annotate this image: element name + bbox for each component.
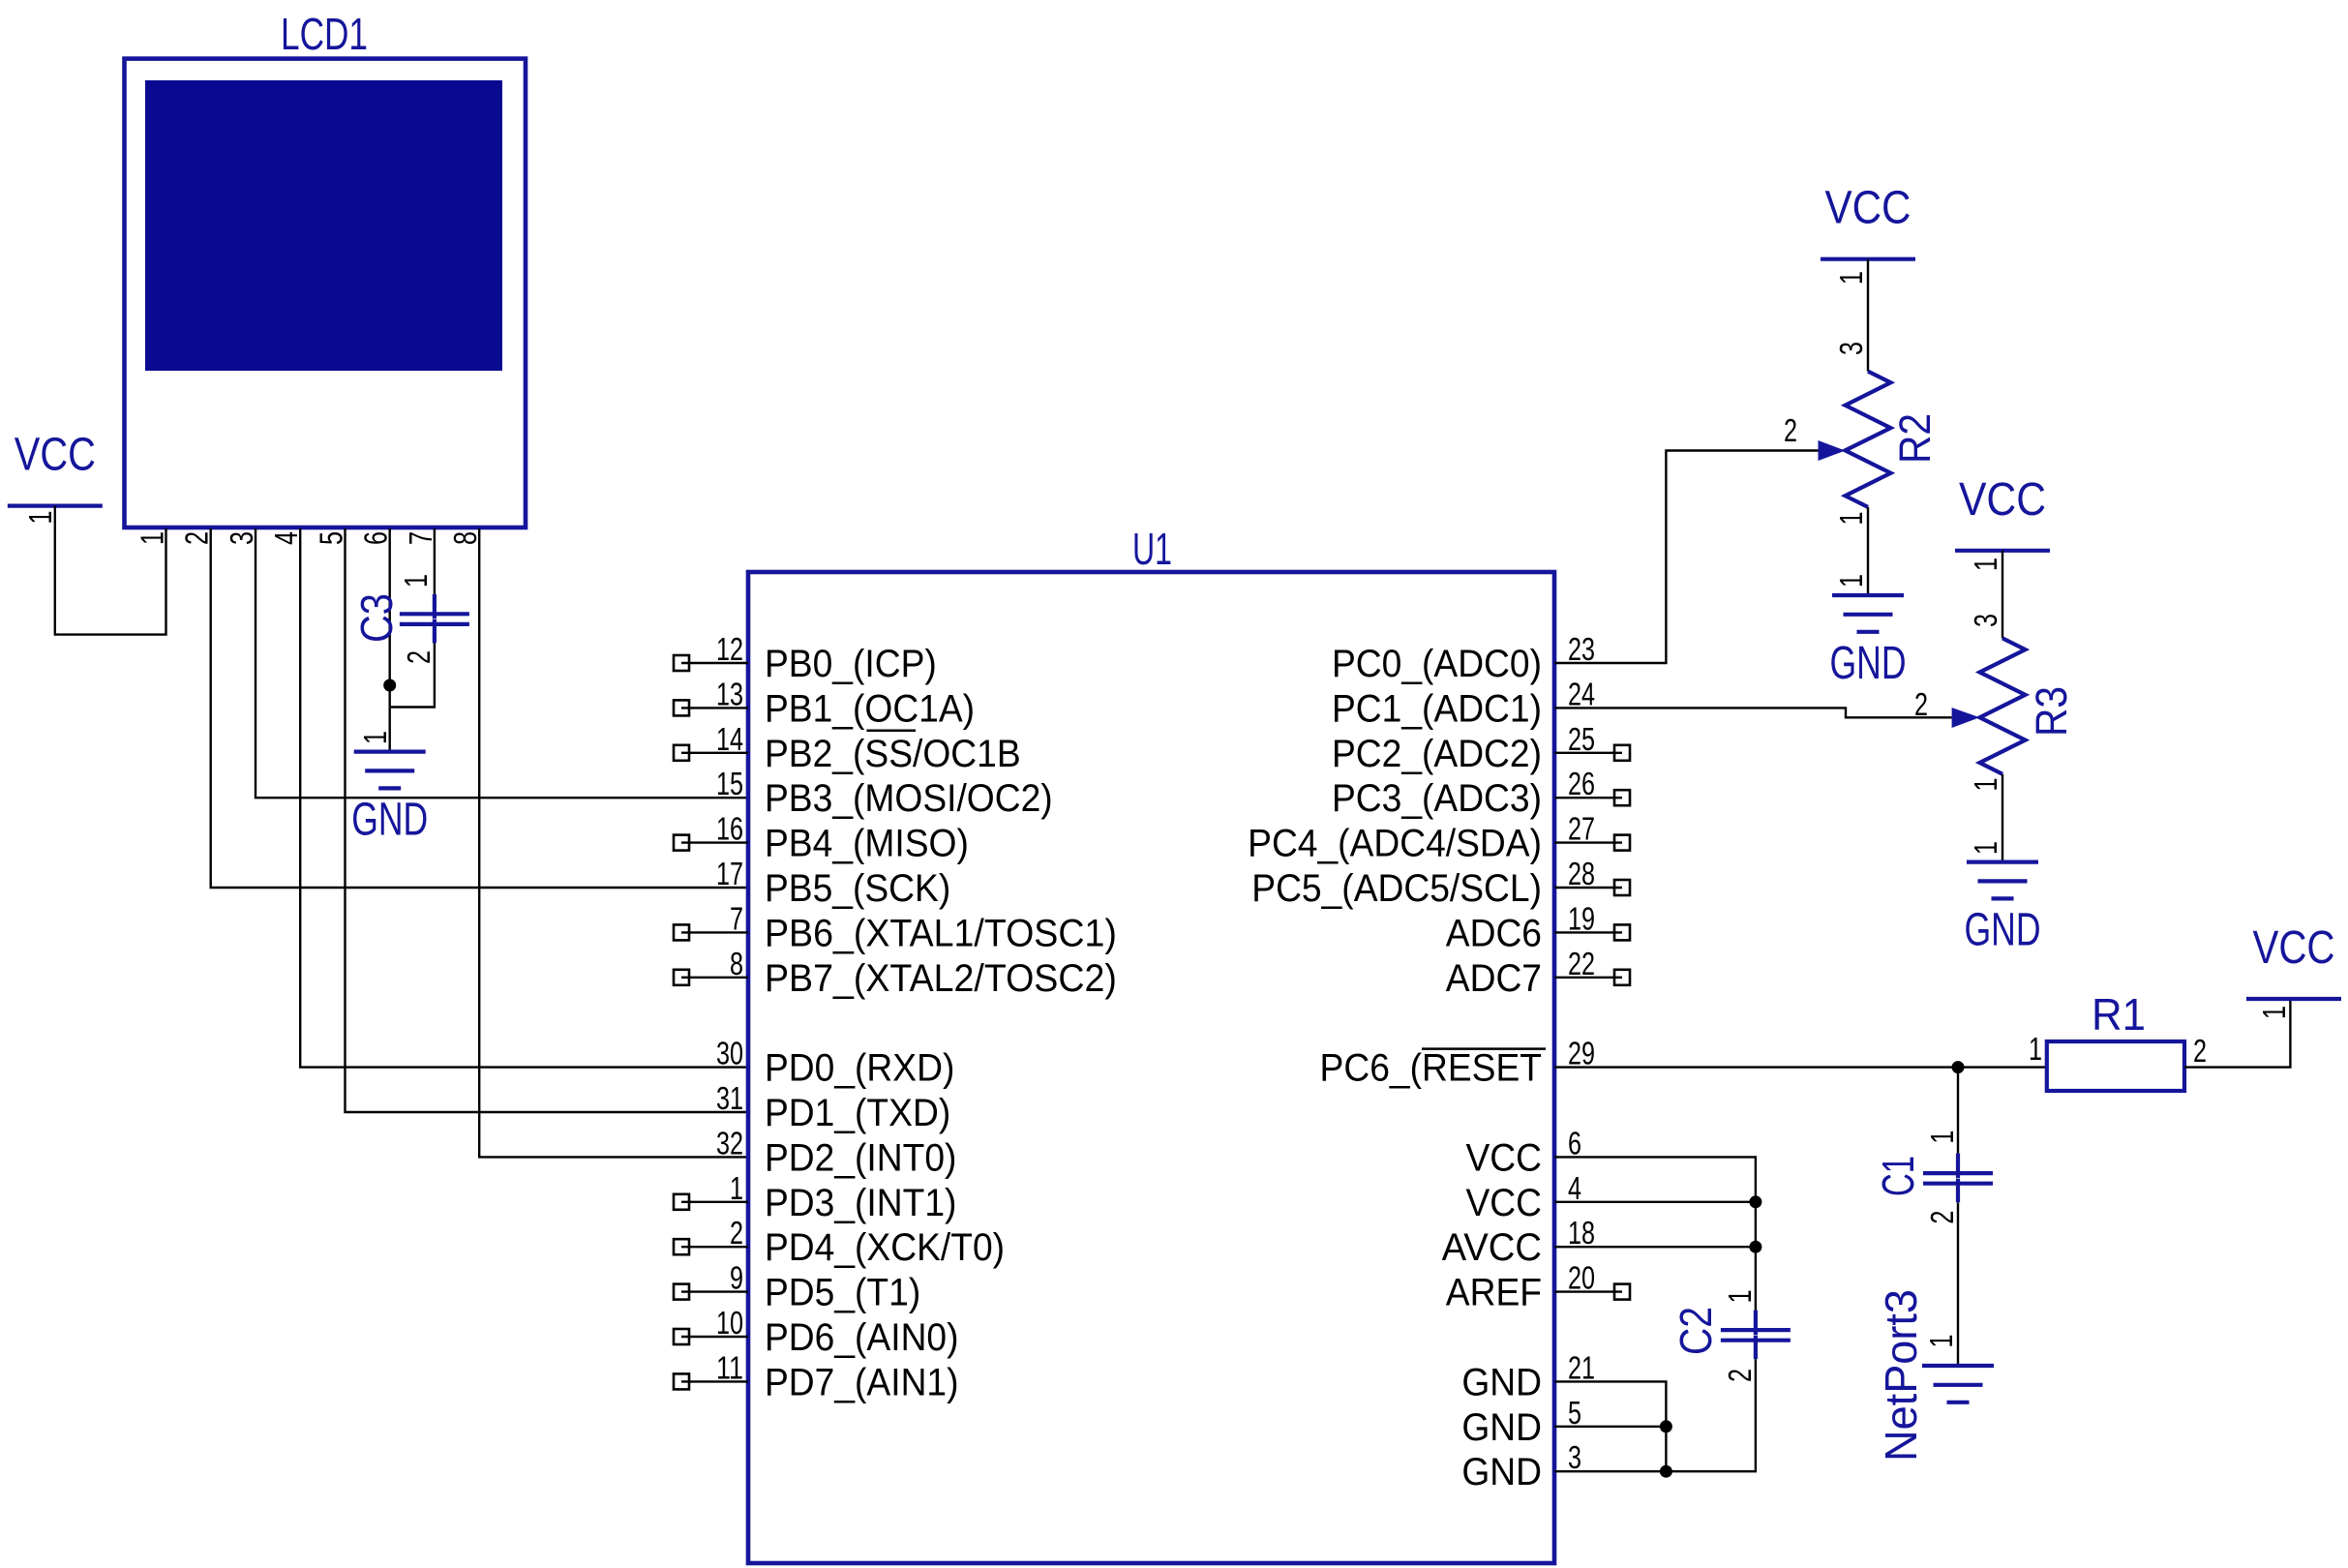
- svg-text:GND: GND: [351, 795, 428, 846]
- svg-text:1: 1: [1722, 1289, 1758, 1303]
- svg-text:GND: GND: [1965, 905, 2041, 956]
- junction dot (GND net, pin 5): [1660, 1420, 1672, 1432]
- svg-text:32: 32: [716, 1125, 743, 1161]
- U1 pin 10 PD6_(AIN0): [674, 1305, 959, 1359]
- svg-text:GND: GND: [1461, 1361, 1542, 1403]
- U1 pin 12 PB0_(ICP): [674, 631, 937, 685]
- svg-text:PC2_(ADC2): PC2_(ADC2): [1332, 733, 1542, 775]
- svg-text:PD4_(XCK/T0): PD4_(XCK/T0): [765, 1226, 1005, 1269]
- U1 pin 21 GND: [1461, 1349, 1595, 1403]
- svg-text:9: 9: [730, 1260, 743, 1296]
- svg-text:PD6_(AIN0): PD6_(AIN0): [765, 1316, 959, 1359]
- svg-text:2: 2: [1924, 1211, 1960, 1224]
- svg-text:PB0_(ICP): PB0_(ICP): [765, 643, 937, 685]
- U1 pin 32 PD2_(INT0): [716, 1125, 956, 1179]
- wire C2 pin 2 down to GND net: [1666, 1359, 1756, 1471]
- wire LCD1 pin 6 down to GND: [389, 528, 391, 752]
- wire R2 pin 1 to GND: [1867, 507, 1869, 595]
- svg-text:3: 3: [1568, 1439, 1581, 1475]
- svg-text:PB7_(XTAL2/TOSC2): PB7_(XTAL2/TOSC2): [765, 957, 1117, 1000]
- U1 pin 2 PD4_(XCK/T0): [674, 1215, 1005, 1269]
- capacitor C1: [1873, 1131, 1993, 1224]
- svg-text:1: 1: [730, 1170, 743, 1206]
- wire junction to C1 pin 1: [1957, 1068, 1959, 1154]
- svg-text:PD1_(TXD): PD1_(TXD): [765, 1092, 950, 1134]
- svg-text:22: 22: [1568, 946, 1595, 981]
- svg-text:PC4_(ADC4/SDA): PC4_(ADC4/SDA): [1248, 823, 1542, 865]
- power symbol VCC (above R3): [1955, 474, 2050, 571]
- U1 pin 1 PD3_(INT1): [674, 1170, 956, 1224]
- power symbol VCC (left, to LCD1 pin 1): [8, 430, 103, 525]
- svg-text:AREF: AREF: [1446, 1272, 1542, 1314]
- svg-text:1: 1: [2029, 1031, 2042, 1067]
- svg-text:27: 27: [1568, 811, 1595, 847]
- U1 pin 19 ADC6: [1446, 900, 1630, 954]
- ground symbol GND (below C3 / LCD pin 6): [351, 731, 428, 846]
- svg-text:25: 25: [1568, 721, 1595, 757]
- svg-text:VCC: VCC: [1959, 474, 2046, 526]
- svg-text:PD5_(T1): PD5_(T1): [765, 1272, 920, 1314]
- svg-text:R3: R3: [2027, 686, 2076, 737]
- wire U1 pin 4 (VCC): [1554, 1201, 1756, 1203]
- svg-text:PB6_(XTAL1/TOSC1): PB6_(XTAL1/TOSC1): [765, 912, 1117, 954]
- potentiometer R2: [1784, 342, 1940, 526]
- svg-text:PC6_(RESET: PC6_(RESET: [1320, 1047, 1542, 1090]
- svg-text:14: 14: [716, 721, 743, 757]
- svg-text:PB5_(SCK): PB5_(SCK): [765, 867, 950, 910]
- svg-text:2: 2: [179, 531, 215, 545]
- wire U1 pin 3 (GND): [1554, 1470, 1666, 1472]
- U1 pin 15 PB3_(MOSI/OC2): [716, 766, 1053, 820]
- svg-text:24: 24: [1568, 676, 1595, 711]
- wire VCC to LCD1 pin 1: [55, 506, 166, 635]
- svg-text:31: 31: [716, 1080, 743, 1116]
- svg-text:26: 26: [1568, 766, 1595, 801]
- svg-text:3: 3: [1968, 614, 2003, 627]
- svg-text:U1: U1: [1132, 524, 1172, 574]
- ground symbol GND (below R2): [1830, 574, 1907, 689]
- wire R1 pin 2 to VCC: [2184, 999, 2290, 1068]
- junction dot (VCC net, pin 18): [1749, 1241, 1761, 1253]
- svg-text:18: 18: [1568, 1215, 1595, 1251]
- svg-text:1: 1: [22, 511, 58, 525]
- U1 pin 14 PB2_(SS/OC1B: [674, 721, 1021, 775]
- svg-text:PD0_(RXD): PD0_(RXD): [765, 1047, 954, 1090]
- svg-text:C3: C3: [351, 593, 402, 643]
- wire LCD1 pin 3 to U1 PB3 (pin 15): [256, 528, 748, 798]
- svg-text:2: 2: [730, 1215, 743, 1251]
- svg-text:1: 1: [135, 531, 170, 545]
- U1 pin 8 PB7_(XTAL2/TOSC2): [674, 946, 1117, 1000]
- svg-text:PD3_(INT1): PD3_(INT1): [765, 1182, 956, 1224]
- svg-text:3: 3: [224, 531, 259, 545]
- svg-text:16: 16: [716, 811, 743, 847]
- svg-text:VCC: VCC: [1465, 1136, 1542, 1179]
- svg-text:7: 7: [403, 531, 438, 545]
- resistor R1: [2029, 989, 2207, 1091]
- wire VCC to R3 pin 3: [2002, 551, 2003, 639]
- svg-text:1: 1: [1833, 271, 1869, 285]
- svg-text:NetPort3: NetPort3: [1876, 1289, 1926, 1462]
- svg-text:PB1_(OC1A): PB1_(OC1A): [765, 687, 975, 730]
- svg-text:1: 1: [1924, 1131, 1960, 1144]
- svg-text:23: 23: [1568, 631, 1595, 667]
- wire U1 pin 5 (GND): [1554, 1426, 1666, 1428]
- svg-text:29: 29: [1568, 1036, 1595, 1071]
- wire LCD1 pin 8 to U1 PD2 (pin 32): [479, 528, 748, 1157]
- svg-text:4: 4: [1568, 1170, 1581, 1206]
- U1 pin 18 AVCC: [1442, 1215, 1595, 1269]
- svg-text:19: 19: [1568, 900, 1595, 936]
- power symbol VCC (right of R1): [2246, 922, 2341, 1019]
- U1 pin 29 PC6_(RESET: [1320, 1036, 1595, 1090]
- U1 pin 13 PB1_(OC1A): [674, 676, 975, 730]
- svg-text:PB2_(SS/OC1B: PB2_(SS/OC1B: [765, 733, 1021, 775]
- U1 pin 4 VCC: [1465, 1170, 1581, 1224]
- svg-text:R2: R2: [1890, 413, 1940, 464]
- U1 pin 11 PD7_(AIN1): [674, 1349, 959, 1403]
- svg-text:2: 2: [401, 650, 436, 664]
- U1 pin 7 PB6_(XTAL1/TOSC1): [674, 900, 1117, 954]
- svg-text:PC1_(ADC1): PC1_(ADC1): [1332, 687, 1542, 730]
- svg-text:8: 8: [730, 946, 743, 981]
- wire C1 pin 2 to NetPort3: [1957, 1202, 1959, 1366]
- svg-text:1: 1: [398, 574, 434, 588]
- svg-text:PC3_(ADC3): PC3_(ADC3): [1332, 777, 1542, 820]
- svg-text:5: 5: [314, 531, 349, 545]
- svg-text:C2: C2: [1671, 1307, 1721, 1355]
- U1 pin 3 GND: [1461, 1439, 1581, 1493]
- wire LCD1 pin 2 to U1 PB5 (pin 17): [211, 528, 748, 888]
- ground symbol GND (below R3): [1965, 841, 2041, 956]
- svg-text:12: 12: [716, 631, 743, 667]
- svg-text:1: 1: [1968, 558, 2003, 571]
- power symbol VCC (above R2): [1821, 183, 1915, 285]
- wire LCD1 pin 5 to U1 PD1 (pin 31): [346, 528, 749, 1112]
- svg-text:21: 21: [1568, 1349, 1595, 1385]
- svg-text:7: 7: [730, 900, 743, 936]
- wire LCD1 pin 4 to U1 PD0 (pin 30): [300, 528, 748, 1068]
- LCD1 screen area: [145, 80, 502, 371]
- svg-text:4: 4: [268, 531, 304, 545]
- U1 pin 5 GND: [1461, 1395, 1581, 1449]
- svg-text:ADC6: ADC6: [1446, 912, 1542, 954]
- svg-text:VCC: VCC: [2253, 922, 2335, 974]
- svg-text:PB3_(MOSI/OC2): PB3_(MOSI/OC2): [765, 777, 1053, 820]
- LCD1 pin numbers 1-8: [135, 531, 484, 545]
- svg-text:11: 11: [716, 1349, 743, 1385]
- U1 pin 27 PC4_(ADC4/SDA): [1248, 811, 1630, 865]
- svg-text:PD7_(AIN1): PD7_(AIN1): [765, 1361, 959, 1403]
- U1 pin 20 AREF: [1446, 1260, 1630, 1314]
- svg-text:PB4_(MISO): PB4_(MISO): [765, 823, 969, 865]
- svg-text:VCC: VCC: [1465, 1182, 1542, 1224]
- U1 pin 31 PD1_(TXD): [716, 1080, 950, 1134]
- svg-text:GND: GND: [1461, 1451, 1542, 1493]
- svg-text:VCC: VCC: [15, 430, 96, 481]
- svg-text:2: 2: [1722, 1369, 1758, 1382]
- wire U1 pin 6 (VCC) to C2: [1554, 1157, 1756, 1310]
- U1 pin 30 PD0_(RXD): [716, 1036, 954, 1090]
- U1 pin 6 VCC: [1465, 1125, 1581, 1179]
- svg-text:1: 1: [1968, 778, 2003, 792]
- U1 pin 22 ADC7: [1446, 946, 1630, 1000]
- svg-text:1: 1: [1833, 574, 1869, 588]
- U1 pin 23 PC0_(ADC0): [1332, 631, 1595, 685]
- svg-text:R1: R1: [2092, 989, 2146, 1040]
- LCD display LCD1: [125, 9, 527, 528]
- svg-text:1: 1: [2256, 1006, 2292, 1019]
- wire U1 pin 18 (AVCC): [1554, 1246, 1756, 1248]
- junction dot (VCC net, pin 4): [1749, 1195, 1761, 1208]
- svg-text:VCC: VCC: [1825, 183, 1912, 234]
- potentiometer R3: [1914, 614, 2076, 792]
- svg-text:2: 2: [1784, 412, 1797, 448]
- svg-text:GND: GND: [1830, 638, 1907, 689]
- junction dot (pin 6 net): [383, 679, 396, 692]
- wire U1 pin 21 (GND): [1554, 1381, 1666, 1471]
- U1 pin 9 PD5_(T1): [674, 1260, 920, 1314]
- svg-text:PC0_(ADC0): PC0_(ADC0): [1332, 643, 1542, 685]
- MCU U1 (ATmega8) body: [748, 524, 1554, 1563]
- svg-text:1: 1: [1923, 1335, 1959, 1348]
- U1 pin 28 PC5_(ADC5/SCL): [1251, 856, 1630, 910]
- svg-text:15: 15: [716, 766, 743, 801]
- wire R3 pin 1 to GND: [2002, 774, 2003, 862]
- svg-text:ADC7: ADC7: [1446, 957, 1542, 1000]
- svg-text:20: 20: [1568, 1260, 1595, 1296]
- svg-text:LCD1: LCD1: [281, 9, 368, 59]
- capacitor C2: [1671, 1289, 1791, 1382]
- svg-text:6: 6: [1568, 1125, 1581, 1161]
- svg-text:8: 8: [447, 531, 483, 545]
- capacitor C3: [351, 528, 469, 708]
- svg-text:1: 1: [357, 731, 393, 744]
- svg-text:6: 6: [358, 531, 394, 545]
- svg-text:28: 28: [1568, 856, 1595, 891]
- svg-text:PD2_(INT0): PD2_(INT0): [765, 1136, 956, 1179]
- wire U1 pin 29 (RESET) to R1 pin 1: [1554, 1066, 2047, 1068]
- svg-text:1: 1: [1833, 512, 1869, 526]
- svg-text:GND: GND: [1461, 1406, 1542, 1449]
- svg-text:5: 5: [1568, 1395, 1581, 1431]
- svg-text:3: 3: [1833, 342, 1869, 355]
- U1 pin 16 PB4_(MISO): [674, 811, 969, 865]
- U1 pin 26 PC3_(ADC3): [1332, 766, 1630, 820]
- junction dot (GND net, pin 3): [1660, 1465, 1672, 1478]
- junction node (RESET / R1 / C1): [1952, 1061, 1965, 1073]
- svg-text:17: 17: [716, 856, 743, 891]
- svg-text:30: 30: [716, 1036, 743, 1071]
- wire VCC to R2 pin 3: [1867, 259, 1869, 372]
- U1 pin 24 PC1_(ADC1): [1332, 676, 1595, 730]
- svg-text:C1: C1: [1873, 1156, 1923, 1196]
- wire U1 pin 24 to R3 wiper: [1554, 708, 1952, 717]
- U1 pin 25 PC2_(ADC2): [1332, 721, 1630, 775]
- net symbol NetPort3 (ground style): [1876, 1289, 1994, 1462]
- wire U1 pin 23 to R2 wiper: [1554, 451, 1819, 664]
- svg-text:2: 2: [2193, 1033, 2207, 1069]
- svg-text:AVCC: AVCC: [1442, 1226, 1542, 1269]
- U1 pin 17 PB5_(SCK): [716, 856, 950, 910]
- svg-text:13: 13: [716, 676, 743, 711]
- svg-text:1: 1: [1968, 841, 2003, 855]
- svg-text:10: 10: [716, 1305, 743, 1341]
- svg-text:PC5_(ADC5/SCL): PC5_(ADC5/SCL): [1251, 867, 1542, 910]
